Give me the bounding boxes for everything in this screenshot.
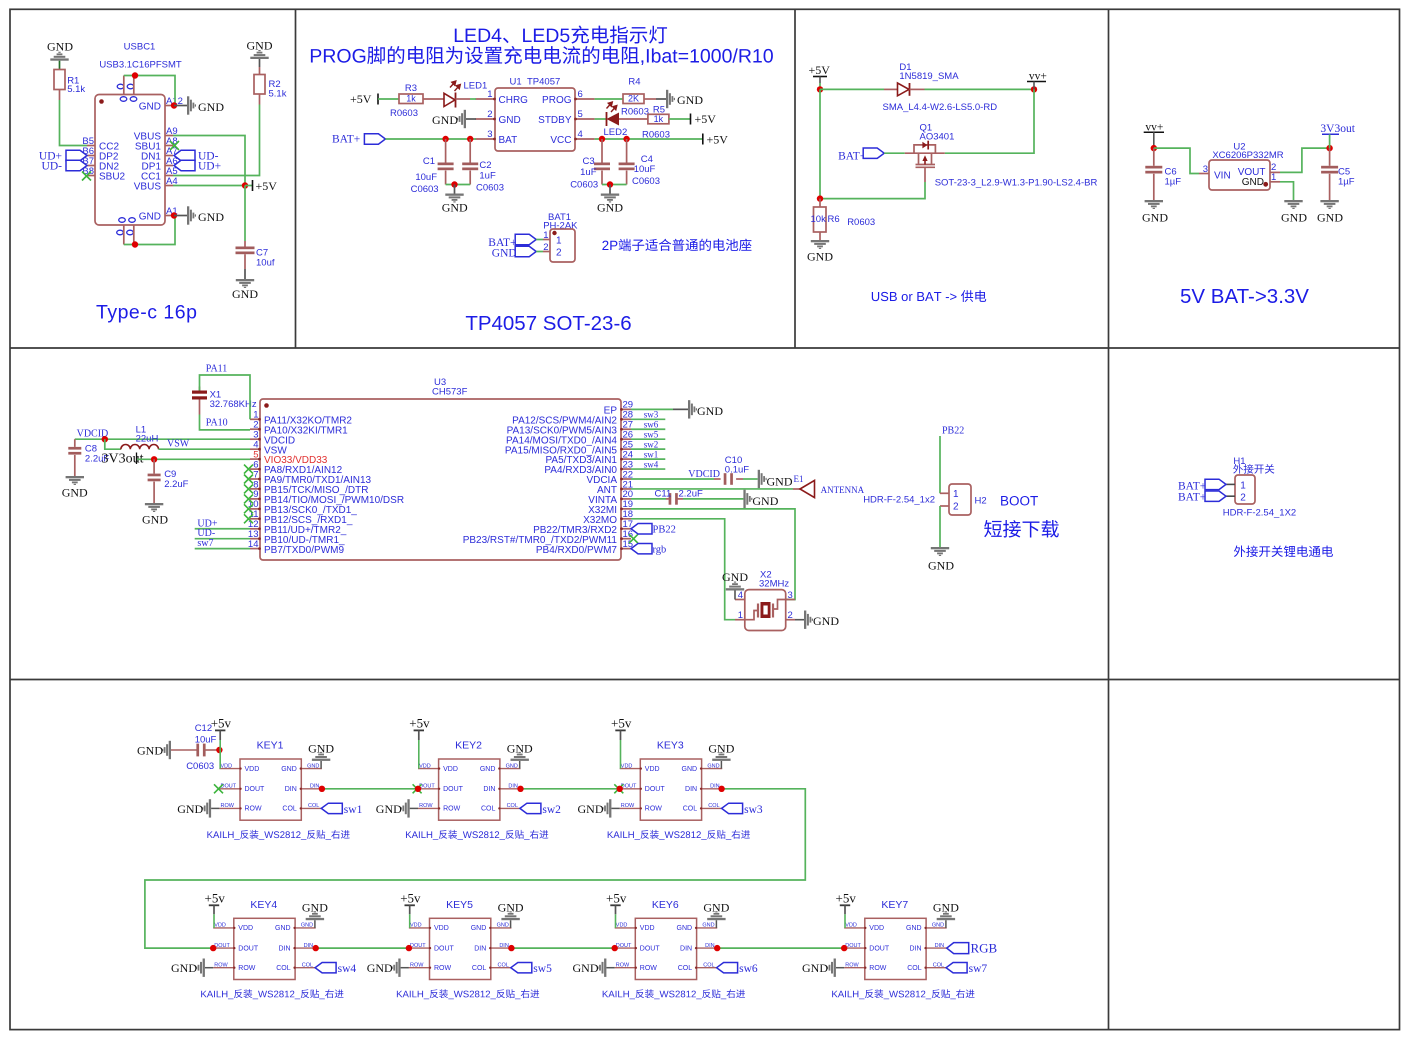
- junction C1C2 gnd: [451, 181, 457, 187]
- svg-text:COL: COL: [933, 963, 944, 969]
- wire 3V3out to pin5: [137, 458, 250, 460]
- junction C4: [623, 136, 629, 142]
- junction C12 +5v: [216, 747, 222, 753]
- svg-text:VDD: VDD: [645, 766, 660, 773]
- ground GND below C6: [1142, 200, 1168, 225]
- svg-text:2.2uF: 2.2uF: [164, 479, 188, 490]
- net flag sw7 at COL of KEY7: [946, 963, 987, 976]
- ground GND below H2: [928, 547, 954, 573]
- svg-text:DIN: DIN: [285, 786, 297, 793]
- no-connect X pin11: [244, 514, 253, 523]
- svg-text:ROW: ROW: [621, 803, 635, 809]
- wire VDCID to pin3: [75, 438, 250, 440]
- svg-text:PROG: PROG: [542, 95, 572, 106]
- svg-text:R6: R6: [828, 214, 840, 225]
- svg-text:sw6: sw6: [644, 420, 659, 430]
- junction C2: [467, 136, 473, 142]
- svg-text:GND: GND: [498, 901, 524, 915]
- svg-text:VDD: VDD: [410, 923, 422, 929]
- junction +5V node: [242, 182, 248, 188]
- svg-text:1k: 1k: [654, 114, 664, 124]
- svg-text:ROW: ROW: [645, 806, 663, 813]
- net flag sw2 at COL of KEY2: [520, 803, 561, 816]
- svg-text:GND: GND: [578, 802, 604, 816]
- capacitor C1 10uF C0603: [411, 139, 454, 195]
- svg-text:2: 2: [1240, 493, 1246, 504]
- svg-text:GND: GND: [139, 102, 161, 113]
- svg-text:1: 1: [738, 610, 743, 621]
- svg-text:+5v: +5v: [211, 716, 232, 731]
- svg-text:DIN: DIN: [499, 943, 509, 949]
- wire Q1 gate to R6: [820, 89, 925, 198]
- svg-text:KEY5: KEY5: [446, 899, 473, 911]
- svg-text:GND: GND: [767, 475, 793, 489]
- note title PROG resistor formula: [311, 46, 773, 65]
- svg-text:BAT+: BAT+: [1178, 492, 1206, 504]
- junction A1: [171, 212, 177, 218]
- net label UD- wire pin13: [195, 528, 250, 539]
- svg-text:COL: COL: [481, 806, 496, 813]
- resistor R5 1k R0603: [642, 105, 670, 141]
- keyswitch KEY6 KAILH WS2812: [615, 899, 718, 980]
- ground GND above X2 pin4: [722, 570, 748, 600]
- net flag UD- at B7: [42, 160, 87, 172]
- svg-text:PB22: PB22: [653, 524, 676, 535]
- diode D1 1N5819_SMA: [883, 62, 998, 113]
- note short to download: [984, 520, 1059, 538]
- ground GND top right of KEY6: [703, 901, 729, 928]
- ground GND top right of KEY1: [308, 741, 334, 768]
- svg-text:DOUT: DOUT: [616, 943, 632, 949]
- svg-text:VCC: VCC: [550, 135, 571, 146]
- junction L1 tap: [102, 436, 108, 442]
- ground GND above R2: [247, 39, 273, 68]
- svg-text:KEY6: KEY6: [652, 899, 679, 911]
- power flag +5v at KEY6: [606, 890, 627, 928]
- wire top shield to GND net: [124, 76, 175, 106]
- svg-text:GND: GND: [1242, 177, 1264, 188]
- svg-text:DIN: DIN: [710, 784, 720, 790]
- svg-text:1uF: 1uF: [580, 167, 597, 178]
- svg-text:10uF: 10uF: [634, 164, 656, 175]
- svg-text:R0603: R0603: [621, 107, 649, 118]
- svg-text:ROW: ROW: [245, 806, 263, 813]
- capacitor C4 10uF C0603: [619, 139, 660, 187]
- note external switch text: [1234, 545, 1333, 557]
- svg-text:COL: COL: [507, 803, 518, 809]
- svg-text:GND: GND: [933, 901, 959, 915]
- svg-text:DOUT: DOUT: [869, 945, 890, 952]
- svg-text:DIN: DIN: [304, 943, 314, 949]
- svg-text:DIN: DIN: [685, 786, 697, 793]
- resistor R1 5.1k: [54, 70, 85, 95]
- svg-text:GND: GND: [573, 961, 599, 975]
- wire R4 to GND: [644, 98, 666, 100]
- svg-text:BAT+: BAT+: [838, 151, 866, 163]
- net flag UD+ at A6: [174, 160, 221, 172]
- svg-text:GND: GND: [307, 763, 319, 769]
- svg-text:GND: GND: [1281, 211, 1307, 225]
- junction KEY2 DIN: [517, 786, 523, 792]
- label KAILH for KEY4: [201, 989, 343, 999]
- svg-text:DIN: DIN: [508, 784, 518, 790]
- svg-text:PA10: PA10: [206, 418, 228, 429]
- svg-text:DIN: DIN: [474, 945, 486, 952]
- svg-text:ROW: ROW: [443, 806, 461, 813]
- capacitor C11 2.2uF: [655, 488, 744, 504]
- svg-text:sw1: sw1: [644, 449, 659, 459]
- svg-text:DIN: DIN: [310, 784, 320, 790]
- ground GND top right of KEY2: [507, 741, 533, 768]
- svg-text:ROW: ROW: [845, 963, 859, 969]
- svg-text:GND: GND: [198, 210, 224, 224]
- net flag RGB at KEY7 DIN: [947, 941, 998, 956]
- ground GND at A12: [187, 96, 224, 114]
- svg-text:+5V: +5V: [695, 112, 717, 126]
- svg-text:GND: GND: [432, 113, 458, 127]
- net label sw7 wire pin14: [195, 538, 250, 549]
- svg-text:3: 3: [1203, 164, 1208, 175]
- no-connect X at KEY1 DOUT: [413, 784, 422, 793]
- resistor R3 1k: [390, 83, 423, 119]
- svg-text:COL: COL: [282, 806, 297, 813]
- svg-text:sw3: sw3: [644, 410, 659, 420]
- svg-text:vv+: vv+: [1029, 71, 1047, 83]
- wire LED1 to pin1: [456, 98, 477, 100]
- ic U3 CH573F: [248, 377, 633, 560]
- svg-text:GND: GND: [497, 923, 509, 929]
- wire KEY6 DIN to KEY7 DOUT: [717, 947, 844, 949]
- svg-text:1: 1: [1271, 172, 1276, 183]
- net flag sw3 at COL of KEY3: [722, 803, 763, 816]
- svg-text:ROW: ROW: [419, 803, 433, 809]
- capacitor C8 2.2uF: [68, 439, 109, 476]
- junction KEY2 DOUT: [415, 786, 421, 792]
- net flag BAT+ at BAT1 pin1: [488, 234, 543, 249]
- svg-text:ROW: ROW: [869, 965, 887, 972]
- svg-text:sw3: sw3: [744, 804, 763, 816]
- junction C5: [1326, 145, 1332, 151]
- wire KEY3 DIN to KEY4 DOUT (long loop): [145, 789, 805, 948]
- svg-text:DOUT: DOUT: [410, 943, 426, 949]
- ground GND below C8: [62, 476, 88, 500]
- wire +5V rail down to C7: [244, 186, 246, 247]
- svg-text:ROW: ROW: [410, 963, 424, 969]
- junction C1: [442, 136, 448, 142]
- svg-text:UD-: UD-: [42, 161, 63, 173]
- wire A12 to GND symbol: [174, 105, 187, 107]
- net flag sw5 at COL of KEY5: [511, 963, 552, 976]
- svg-text:ROW: ROW: [640, 965, 658, 972]
- svg-text:CHRG: CHRG: [499, 95, 529, 106]
- svg-text:0.1uF: 0.1uF: [725, 465, 749, 476]
- wire X1 bottom to PA10 pin2: [200, 415, 251, 430]
- svg-text:GND: GND: [442, 200, 468, 214]
- svg-text:VDD: VDD: [238, 925, 253, 932]
- svg-text:1N5819_SMA: 1N5819_SMA: [899, 71, 959, 82]
- capacitor C9 2.2uF: [148, 459, 189, 503]
- ground GND at A1: [187, 206, 224, 224]
- keyswitch KEY5 KAILH WS2812: [409, 899, 512, 980]
- no-connect X at KEY1 DOUT: [214, 784, 223, 793]
- net flag rgb at pin15: [631, 543, 666, 555]
- svg-text:SBU2: SBU2: [99, 172, 126, 183]
- net flag GND at BAT1 pin2: [492, 246, 543, 259]
- svg-text:GND: GND: [47, 40, 73, 54]
- junction C9: [151, 456, 157, 462]
- svg-text:E1: E1: [794, 474, 804, 484]
- svg-text:sw5: sw5: [644, 430, 659, 440]
- svg-text:KEY4: KEY4: [250, 899, 277, 911]
- junction R6 top: [817, 195, 823, 201]
- svg-text:DOUT: DOUT: [214, 943, 230, 949]
- svg-text:C0603: C0603: [632, 176, 660, 187]
- svg-text:PB22: PB22: [942, 426, 964, 437]
- svg-text:GND: GND: [302, 901, 328, 915]
- svg-text:DIN: DIN: [680, 945, 692, 952]
- svg-text:+5v: +5v: [205, 890, 226, 905]
- wire D1 to vv+: [925, 88, 1035, 90]
- ground GND (top-left, above R1): [47, 40, 73, 61]
- net flag BAT+ at H1 pin2: [1178, 491, 1226, 504]
- svg-text:R0603: R0603: [390, 108, 418, 119]
- svg-text:1: 1: [556, 235, 562, 246]
- net label sw4 wire pin23: [631, 459, 665, 469]
- wire bottom shield to GND net: [124, 216, 175, 245]
- svg-text:GND: GND: [301, 923, 313, 929]
- wire GND to R1: [59, 61, 61, 70]
- svg-text:COL: COL: [276, 965, 291, 972]
- power flag +5V (Type-c): [245, 179, 277, 193]
- ground GND at U1 pin2: [432, 110, 476, 128]
- svg-text:2K: 2K: [628, 94, 639, 104]
- resistor R2 5.1k: [254, 67, 287, 105]
- net label sw1 wire pin24: [631, 449, 665, 459]
- no-connect X pin16: [629, 534, 638, 543]
- ground GND at U2: [1281, 200, 1307, 225]
- wire +5V to D1: [820, 88, 884, 90]
- svg-text:BAT: BAT: [499, 135, 518, 146]
- svg-text:H2: H2: [975, 496, 987, 507]
- svg-text:GND: GND: [499, 115, 521, 126]
- wire LED2 to R5: [619, 118, 648, 120]
- keyswitch KEY7 KAILH WS2812: [844, 899, 947, 980]
- net flag UD- at A7: [174, 150, 219, 162]
- ground GND at ROW of KEY3: [578, 799, 620, 817]
- net flag sw4 at COL of KEY4: [315, 963, 356, 976]
- net label 3V3out (black): [102, 452, 144, 467]
- svg-text:GND: GND: [308, 741, 334, 755]
- svg-text:KEY1: KEY1: [257, 740, 284, 752]
- svg-text:10k: 10k: [811, 214, 827, 225]
- ic U1 TP4057: [475, 77, 594, 152]
- label KAILH for KEY2: [406, 830, 548, 840]
- svg-text:GND: GND: [682, 766, 698, 773]
- svg-text:C11: C11: [655, 488, 672, 499]
- svg-text:+5v: +5v: [836, 890, 857, 905]
- keyswitch KEY4 KAILH WS2812: [213, 899, 316, 980]
- svg-text:2.2uF: 2.2uF: [679, 488, 703, 499]
- svg-text:COL: COL: [683, 806, 698, 813]
- svg-text:AO3401: AO3401: [920, 131, 955, 142]
- svg-text:ROW: ROW: [616, 963, 630, 969]
- svg-text:DOUT: DOUT: [640, 945, 661, 952]
- junction vv+: [1031, 86, 1037, 92]
- power flag +5v at KEY5: [400, 890, 421, 928]
- svg-text:VDD: VDD: [869, 925, 884, 932]
- svg-text:STDBY: STDBY: [538, 115, 572, 126]
- svg-text:HDR-F-2.54_1X2: HDR-F-2.54_1X2: [1223, 508, 1296, 519]
- svg-text:C2: C2: [479, 160, 491, 171]
- svg-text:GND: GND: [247, 39, 273, 53]
- svg-text:sw6: sw6: [739, 963, 758, 975]
- svg-text:GND: GND: [702, 923, 714, 929]
- power flag +5V at VCC: [703, 133, 728, 147]
- no-connect X pin8: [244, 484, 253, 493]
- svg-text:1k: 1k: [406, 94, 416, 104]
- ground GND below R6: [807, 240, 833, 264]
- svg-text:GND: GND: [62, 486, 88, 500]
- svg-text:GND: GND: [752, 494, 778, 508]
- no-connect X pin9: [244, 494, 253, 503]
- wire A1 to GND symbol: [174, 215, 187, 217]
- svg-text:1uF: 1uF: [479, 171, 496, 182]
- wire vv+ to U2 VIN: [1154, 148, 1199, 173]
- transistor Q1 AO3401: [905, 123, 1098, 189]
- junction top shield: [132, 72, 138, 78]
- ground GND top right of KEY5: [498, 901, 524, 928]
- power flag +5v at KEY3: [611, 716, 632, 769]
- svg-text:+5V: +5V: [256, 179, 278, 193]
- wire pin4 VCC to +5V: [595, 138, 703, 140]
- svg-text:1µF: 1µF: [1338, 176, 1355, 187]
- svg-text:Type-c 16p: Type-c 16p: [96, 302, 197, 324]
- svg-text:CH573F: CH573F: [432, 386, 468, 397]
- svg-text:COL: COL: [497, 963, 508, 969]
- junction KEY7 DOUT: [841, 945, 847, 951]
- wire KEY5 DIN to KEY6 DOUT: [511, 947, 614, 949]
- wire PB22 to H2 pin1: [939, 436, 941, 493]
- svg-text:U1: U1: [510, 77, 522, 88]
- svg-text:R4: R4: [628, 77, 640, 88]
- wire R5 to +5V: [669, 118, 691, 120]
- wire U2 VOUT to 3V3out: [1280, 148, 1330, 172]
- svg-text:+5V: +5V: [350, 92, 372, 106]
- svg-text:1µF: 1µF: [1165, 176, 1182, 187]
- svg-text:COL: COL: [708, 803, 719, 809]
- svg-text:TP4057: TP4057: [527, 77, 560, 88]
- antenna E1: [794, 474, 865, 498]
- junction bottom shield: [132, 241, 138, 247]
- svg-text:32MHz: 32MHz: [759, 579, 789, 590]
- svg-text:GND: GND: [281, 766, 297, 773]
- svg-text:GND: GND: [722, 570, 748, 584]
- connector USBC1 USB3.1C16PFSMT: [82, 42, 183, 245]
- svg-text:COL: COL: [678, 965, 693, 972]
- net flag 3V3out: [1320, 123, 1355, 148]
- svg-text:3: 3: [788, 590, 793, 601]
- no-connect X on B8: [82, 172, 91, 181]
- capacitor C3 1uF C0603: [570, 139, 610, 191]
- svg-text:VSW: VSW: [167, 439, 190, 450]
- svg-text:COL: COL: [308, 803, 319, 809]
- svg-text:C3: C3: [583, 156, 595, 167]
- wire A5 CC1 to R2: [173, 105, 260, 176]
- svg-text:DIN: DIN: [910, 945, 922, 952]
- capacitor C5 1uF: [1321, 148, 1355, 200]
- svg-text:ANTENNA: ANTENNA: [821, 485, 865, 495]
- svg-text:BOOT: BOOT: [1000, 494, 1038, 509]
- svg-text:2: 2: [788, 610, 793, 621]
- junction A12: [171, 102, 177, 108]
- svg-text:GND: GND: [507, 741, 533, 755]
- svg-text:VDD: VDD: [621, 763, 633, 769]
- wire BAT+ to Q1 source: [884, 152, 905, 154]
- wire C1 C2 commons to GND: [446, 184, 471, 186]
- junction +5V sec3: [817, 86, 823, 92]
- power flag +5v at KEY4: [205, 890, 226, 928]
- svg-text:GND: GND: [1142, 211, 1168, 225]
- wire H2 pin2 to GND: [939, 506, 941, 547]
- wire pin22 VDCIA: [631, 478, 721, 480]
- svg-text:PB4/RXD0/PWM7: PB4/RXD0/PWM7: [536, 545, 618, 556]
- wire X1 top to PA11 pin1: [200, 375, 251, 419]
- svg-text:C12: C12: [195, 723, 212, 734]
- svg-text:GND: GND: [275, 925, 291, 932]
- net flag UD+ at B6: [39, 150, 87, 162]
- no-connect X pin7: [244, 475, 253, 484]
- svg-text:GND: GND: [703, 901, 729, 915]
- svg-text:+5V: +5V: [809, 63, 831, 77]
- svg-text:10uf: 10uf: [256, 258, 275, 269]
- junction KEY4 DOUT: [210, 945, 216, 951]
- keyswitch KEY3 KAILH WS2812: [620, 740, 723, 821]
- net flag BAT+ (TP4057): [332, 134, 385, 146]
- svg-text:VDD: VDD: [616, 923, 628, 929]
- svg-text:GND: GND: [367, 961, 393, 975]
- ground GND at R4: [666, 90, 703, 108]
- power flag +5V at R5: [691, 112, 717, 126]
- no-connect X pin10: [244, 504, 253, 513]
- svg-text:VDD: VDD: [443, 766, 458, 773]
- wire L1 to pin4 VSW: [159, 448, 251, 450]
- power flag +5V (sec3): [809, 63, 831, 89]
- net flag sw6 at COL of KEY6: [717, 963, 758, 976]
- junction KEY1 DIN: [319, 786, 325, 792]
- svg-text:+5v: +5v: [400, 890, 421, 905]
- svg-text:sw4: sw4: [644, 459, 659, 469]
- svg-text:VDD: VDD: [214, 923, 226, 929]
- power flag +5v at KEY2: [409, 716, 430, 769]
- junction KEY6 DIN: [714, 945, 720, 951]
- svg-text:ROW: ROW: [221, 803, 235, 809]
- svg-text:+5v: +5v: [409, 716, 430, 731]
- resistor R6 10k R0603: [811, 199, 876, 240]
- svg-text:+5v: +5v: [611, 716, 632, 731]
- svg-text:UD+: UD+: [198, 161, 221, 173]
- net flag vv+ (sec3): [1027, 71, 1047, 90]
- connector H2 HDR-F-2.54_1x2: [863, 484, 986, 515]
- svg-text:GND: GND: [677, 925, 693, 932]
- svg-text:GND: GND: [707, 763, 719, 769]
- svg-text:DOUT: DOUT: [645, 786, 666, 793]
- ground GND at C10: [758, 470, 793, 489]
- svg-text:GND: GND: [142, 513, 168, 527]
- net flag vv+ (sec4): [1144, 122, 1164, 149]
- net label UD+ wire pin12: [195, 518, 250, 529]
- wire KEY1 DIN to KEY2 DOUT: [322, 788, 418, 790]
- junction C6 vin: [1151, 145, 1157, 151]
